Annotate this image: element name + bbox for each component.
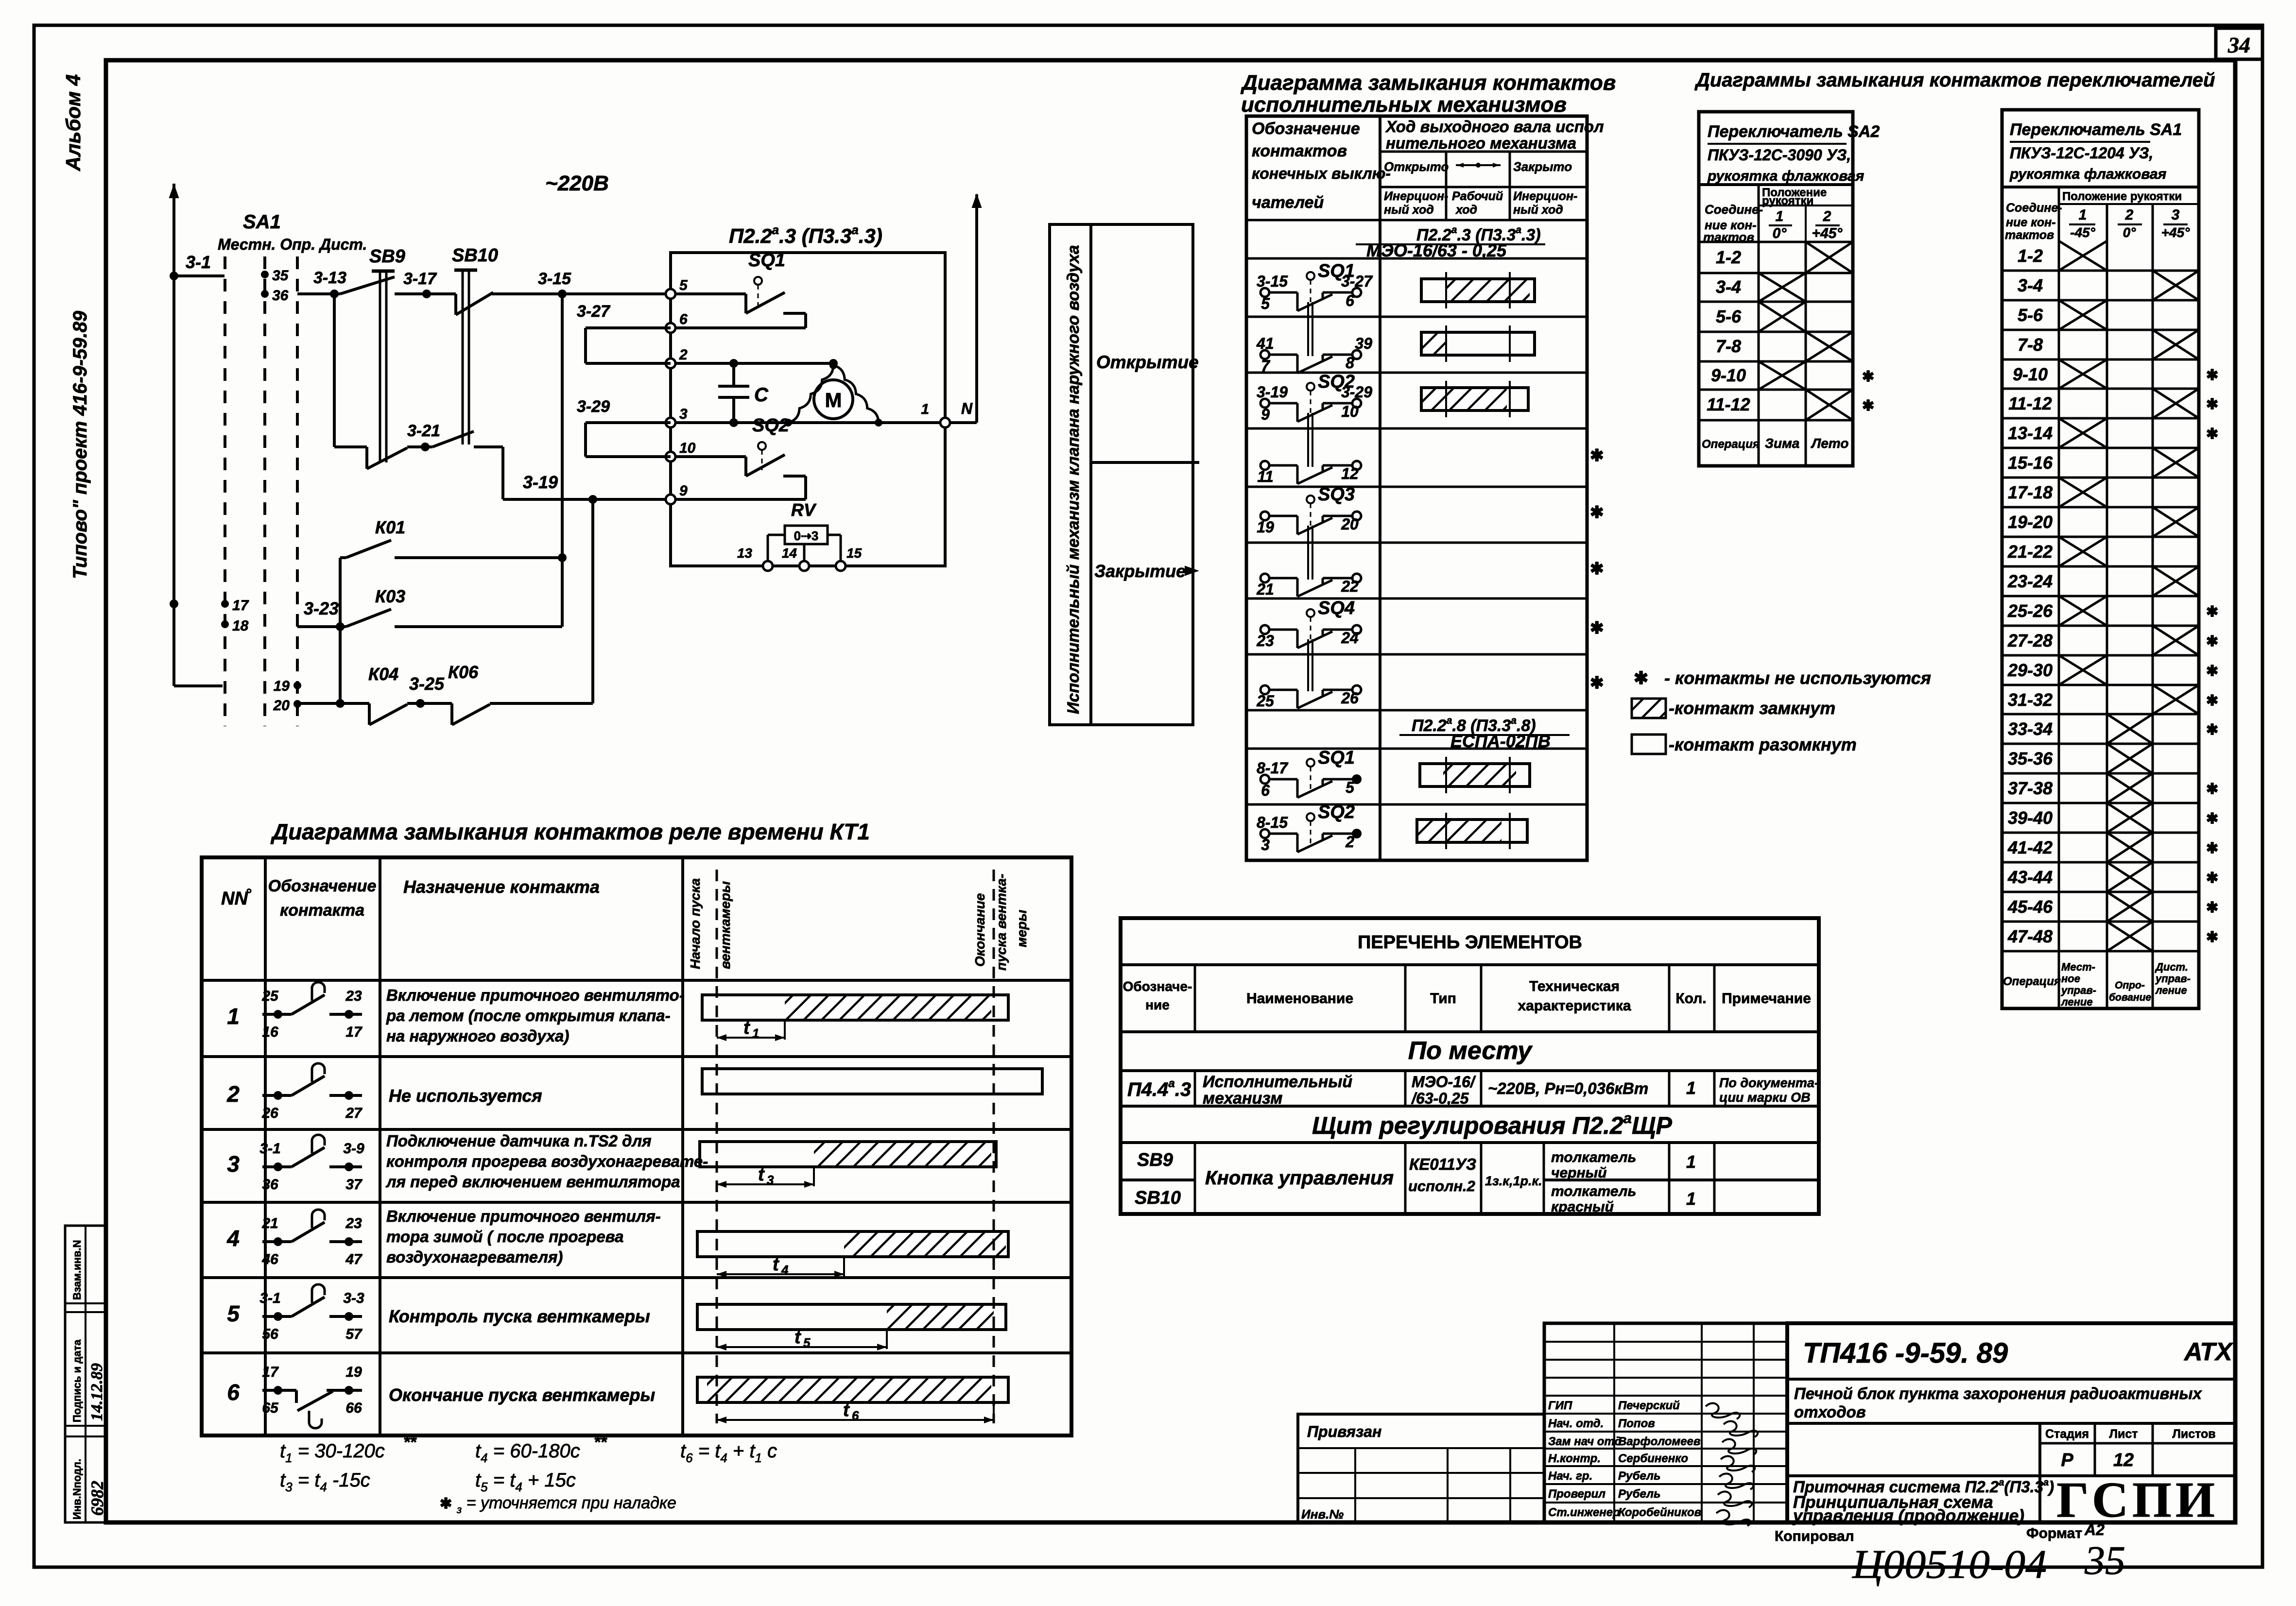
svg-text:Включение приточного вентиля: Включение приточного вентилято-	[386, 986, 685, 1004]
svg-text:SB10: SB10	[452, 245, 498, 266]
svg-text:Н.контр.: Н.контр.	[1548, 1452, 1601, 1465]
svg-text:3-19: 3-19	[1257, 383, 1288, 401]
svg-text:А2: А2	[2084, 1521, 2105, 1538]
svg-text:1: 1	[227, 1004, 240, 1029]
svg-text:Операция: Операция	[1702, 438, 1760, 451]
svg-text:35: 35	[2084, 1538, 2125, 1583]
svg-text:Открыто: Открыто	[1384, 159, 1449, 174]
svg-text:Ст.инженер: Ст.инженер	[1548, 1506, 1620, 1519]
svg-text:Обозначение: Обозначение	[268, 877, 377, 895]
svg-text:66: 66	[345, 1400, 362, 1416]
svg-text:SB9: SB9	[1137, 1150, 1173, 1170]
svg-text:Техническая: Техническая	[1529, 978, 1620, 994]
svg-text:управ-: управ-	[2155, 973, 2191, 985]
svg-text:Зима: Зима	[1765, 436, 1799, 451]
svg-text:Нач. отд.: Нач. отд.	[1548, 1417, 1604, 1430]
svg-text:11-12: 11-12	[1707, 394, 1750, 414]
svg-text:Включение приточного вентиля: Включение приточного вентиля-	[386, 1207, 661, 1225]
svg-text:отходов: отходов	[1794, 1403, 1866, 1421]
svg-text:✱: ✱	[1590, 674, 1604, 692]
svg-text:нительного механизма: нительного механизма	[1386, 134, 1576, 152]
svg-text:ное: ное	[2061, 973, 2080, 985]
svg-text:13: 13	[737, 546, 753, 561]
svg-text:✱: ✱	[2206, 367, 2218, 383]
svg-text:П4.4а​.3: П4.4а​.3	[1127, 1077, 1191, 1100]
svg-text:По месту: По месту	[1408, 1037, 1533, 1065]
svg-text:6: 6	[227, 1380, 240, 1405]
svg-text:Инерцион-: Инерцион-	[1384, 189, 1448, 203]
svg-text:рукоятка флажковая: рукоятка флажковая	[1707, 168, 1864, 184]
svg-text:17: 17	[232, 598, 249, 614]
svg-text:ра летом (после открытия клап: ра летом (после открытия клапа-	[386, 1007, 671, 1025]
svg-text:RV: RV	[791, 500, 817, 520]
svg-text:5-6: 5-6	[1716, 307, 1742, 326]
svg-text:7: 7	[1261, 357, 1271, 375]
svg-text:1-2: 1-2	[2018, 246, 2043, 266]
svg-text:5: 5	[227, 1301, 240, 1326]
svg-text:37: 37	[345, 1177, 363, 1193]
svg-text:19: 19	[345, 1364, 362, 1380]
svg-text:Опро-: Опро-	[2115, 980, 2145, 991]
svg-text:управления (продолжение): управления (продолжение)	[1792, 1506, 2024, 1525]
svg-text:10: 10	[1341, 403, 1359, 420]
svg-text:SQ1: SQ1	[748, 250, 785, 271]
svg-text:11-12: 11-12	[2008, 393, 2052, 413]
svg-text:Диаграмма замыкания контактов: Диаграмма замыкания контактов	[1240, 71, 1616, 95]
svg-text:черный: черный	[1551, 1165, 1607, 1181]
svg-text:ход: ход	[1455, 203, 1477, 217]
svg-text:24: 24	[1341, 629, 1359, 647]
svg-text:МЭО-16/63 - 0,25: МЭО-16/63 - 0,25	[1366, 240, 1507, 260]
svg-text:меры: меры	[1014, 910, 1029, 947]
svg-text:47: 47	[345, 1251, 363, 1267]
svg-text:SQ3: SQ3	[1318, 484, 1355, 505]
svg-text:Варфоломеев: Варфоломеев	[1618, 1435, 1700, 1448]
svg-text:SQ1: SQ1	[1318, 261, 1355, 281]
svg-text:17-18: 17-18	[2008, 482, 2053, 502]
svg-text:Лист: Лист	[2109, 1427, 2138, 1441]
svg-text:Операция: Операция	[2003, 975, 2061, 988]
svg-text:Инв.№: Инв.№	[1301, 1507, 1344, 1521]
svg-text:31-32: 31-32	[2008, 690, 2053, 710]
svg-text:9-10: 9-10	[1711, 365, 1746, 385]
svg-text:23: 23	[345, 988, 362, 1004]
svg-text:Подпись и дата: Подпись и дата	[71, 1339, 83, 1422]
svg-text:25-26: 25-26	[2007, 601, 2053, 621]
svg-text:✱: ✱	[2206, 604, 2218, 620]
svg-text:SQ1: SQ1	[1318, 748, 1355, 768]
svg-text:Положение рукоятки: Положение рукоятки	[2062, 190, 2182, 203]
svg-text:✱: ✱	[1590, 619, 1604, 637]
svg-text:t: t	[743, 1018, 750, 1038]
svg-text:5: 5	[1346, 779, 1355, 796]
svg-text:М: М	[825, 389, 842, 411]
svg-text:12: 12	[1341, 465, 1359, 482]
svg-text:23: 23	[1256, 632, 1274, 649]
svg-text:тактов: тактов	[2005, 228, 2054, 242]
svg-text:Печной блок пункта захороне: Печной блок пункта захоронения радиоакти…	[1794, 1384, 2203, 1402]
svg-text:контроля прогрева воздухонаг: контроля прогрева воздухонагревате-	[386, 1152, 708, 1170]
svg-text:контактов: контактов	[1252, 142, 1347, 160]
svg-text:27: 27	[345, 1105, 363, 1121]
svg-text:3-19: 3-19	[523, 472, 558, 492]
svg-text:t5 = t4 + 15с: t5 = t4 + 15с	[475, 1469, 576, 1494]
svg-text:3-15: 3-15	[1257, 273, 1288, 290]
svg-text:Диаграммы замыкания контактов: Диаграммы замыкания контактов переключат…	[1694, 69, 2215, 91]
svg-text:ление: ление	[2061, 996, 2093, 1008]
svg-text:Кнопка управления: Кнопка управления	[1205, 1167, 1394, 1189]
svg-text:✱: ✱	[2206, 870, 2218, 886]
svg-text:По документа-: По документа-	[1719, 1076, 1819, 1090]
svg-text:13-14: 13-14	[2008, 423, 2053, 443]
svg-text:39: 39	[1355, 335, 1372, 352]
svg-text:3-17: 3-17	[403, 270, 437, 288]
svg-text:ля перед включением вентилят: ля перед включением вентилятора	[385, 1173, 680, 1191]
svg-text:венткамеры: венткамеры	[718, 881, 733, 969]
svg-text:11: 11	[1257, 468, 1273, 485]
svg-text:20: 20	[1341, 515, 1359, 533]
svg-text:21: 21	[1256, 581, 1274, 598]
svg-text:**: **	[403, 1433, 417, 1452]
svg-text:25: 25	[261, 988, 279, 1004]
svg-text:3: 3	[227, 1151, 240, 1177]
svg-text:2: 2	[1345, 833, 1354, 851]
svg-text:5: 5	[1261, 295, 1270, 312]
svg-text:9: 9	[679, 483, 688, 499]
svg-text:✱: ✱	[2206, 663, 2218, 679]
svg-text:✱: ✱	[2206, 929, 2218, 945]
svg-text:ление: ление	[2155, 984, 2187, 996]
svg-text:Нач. гр.: Нач. гр.	[1548, 1469, 1592, 1483]
svg-text:+45°: +45°	[2161, 225, 2190, 240]
svg-text:22: 22	[1341, 578, 1359, 595]
svg-text:-45°: -45°	[2070, 225, 2095, 240]
svg-text:тора зимой ( после прогрева: тора зимой ( после прогрева	[386, 1228, 624, 1246]
svg-text:Диаграмма замыкания контакто: Диаграмма замыкания контактов реле време…	[270, 819, 870, 844]
svg-text:Печерский: Печерский	[1618, 1399, 1680, 1412]
svg-text:33-34: 33-34	[2008, 719, 2053, 739]
svg-text:Местн. Опр. Дист.: Местн. Опр. Дист.	[218, 236, 367, 253]
svg-text:пуска вентка-: пуска вентка-	[994, 874, 1009, 971]
svg-text:3-15: 3-15	[538, 270, 571, 288]
svg-text:SQ2: SQ2	[1318, 802, 1355, 822]
svg-text:18: 18	[232, 618, 249, 634]
svg-text:56: 56	[262, 1326, 278, 1342]
svg-text:Сербиненко: Сербиненко	[1618, 1452, 1688, 1465]
svg-text:Копировал: Копировал	[1775, 1528, 1854, 1544]
svg-text:N: N	[961, 400, 973, 417]
svg-text:Формат: Формат	[2026, 1525, 2082, 1541]
svg-text:3: 3	[767, 1173, 774, 1187]
svg-text:1: 1	[1686, 1152, 1696, 1172]
svg-text:/63-0,25: /63-0,25	[1411, 1090, 1469, 1107]
svg-text:t: t	[758, 1164, 765, 1185]
svg-text:17: 17	[345, 1024, 363, 1040]
svg-text:15: 15	[846, 546, 862, 561]
svg-text:SB9: SB9	[369, 246, 405, 267]
svg-text:9: 9	[1261, 406, 1270, 423]
svg-text:Мест-: Мест-	[2061, 961, 2095, 973]
svg-text:механизм: механизм	[1203, 1089, 1282, 1108]
svg-text:47-48: 47-48	[2007, 926, 2053, 946]
svg-text:1-2: 1-2	[1716, 247, 1741, 267]
svg-text:26: 26	[261, 1105, 278, 1121]
svg-text:+45°: +45°	[1812, 225, 1843, 241]
svg-text:✱: ✱	[2206, 781, 2218, 797]
svg-text:15-16: 15-16	[2008, 453, 2053, 473]
svg-text:5: 5	[679, 277, 688, 293]
svg-text:Взам.инв.N: Взам.инв.N	[71, 1240, 83, 1300]
svg-text:3-1: 3-1	[259, 1141, 280, 1157]
svg-text:К04: К04	[368, 664, 398, 684]
svg-text:3-3: 3-3	[343, 1290, 364, 1306]
svg-text:✱: ✱	[2206, 840, 2218, 856]
svg-text:Исполнительный механизм клапан: Исполнительный механизм клапана наружног…	[1064, 245, 1083, 714]
svg-text:6: 6	[852, 1408, 859, 1423]
svg-text:-контакт замкнут: -контакт замкнут	[1669, 698, 1835, 718]
svg-text:57: 57	[345, 1326, 363, 1342]
svg-text:Стадия: Стадия	[2045, 1427, 2089, 1441]
svg-text:на наружного воздуха): на наружного воздуха)	[386, 1027, 569, 1045]
svg-text:✱: ✱	[1590, 560, 1604, 578]
svg-text:3: 3	[1261, 836, 1270, 854]
svg-text:✱: ✱	[2206, 633, 2218, 649]
svg-text:37-38: 37-38	[2008, 778, 2053, 798]
svg-text:Назначение контакта: Назначение контакта	[403, 877, 600, 897]
svg-text:3-27: 3-27	[577, 302, 611, 321]
svg-text:36: 36	[262, 1177, 278, 1193]
svg-text:8-15: 8-15	[1257, 814, 1288, 831]
svg-text:3-9: 3-9	[343, 1141, 364, 1157]
svg-text:16: 16	[262, 1024, 278, 1040]
svg-text:4: 4	[781, 1263, 789, 1277]
svg-text:Кол.: Кол.	[1675, 991, 1706, 1007]
svg-text:34: 34	[2227, 33, 2250, 57]
svg-text:Дист.: Дист.	[2155, 961, 2188, 973]
svg-text:SQ4: SQ4	[1318, 598, 1355, 618]
svg-text:SQ2: SQ2	[752, 415, 789, 436]
svg-text:Подключение датчика n.TS2 дл: Подключение датчика n.TS2 для	[386, 1132, 652, 1150]
svg-text:Примечание: Примечание	[1722, 991, 1811, 1007]
svg-text:ный ход: ный ход	[1513, 203, 1563, 217]
svg-text:К03: К03	[375, 586, 405, 606]
svg-text:Инв.Nподл.: Инв.Nподл.	[71, 1459, 83, 1520]
svg-text:9-10: 9-10	[2013, 364, 2048, 384]
svg-text:С: С	[754, 384, 769, 406]
svg-text:2: 2	[226, 1081, 240, 1107]
svg-text:39-40: 39-40	[2008, 808, 2053, 828]
svg-text:3-13: 3-13	[313, 269, 346, 287]
svg-text:ПКУЗ-12С-1204 УЗ,: ПКУЗ-12С-1204 УЗ,	[2010, 144, 2153, 162]
svg-text:19: 19	[274, 678, 290, 694]
svg-text:Проверил: Проверил	[1548, 1487, 1605, 1501]
svg-text:чателей: чателей	[1252, 193, 1324, 212]
svg-text:3: 3	[2172, 207, 2180, 223]
svg-text:3-1: 3-1	[186, 252, 211, 272]
svg-text:23-24: 23-24	[2007, 571, 2053, 591]
svg-text:8: 8	[1346, 354, 1354, 372]
svg-text:ПЕРЕЧЕНЬ ЭЛЕМЕНТОВ: ПЕРЕЧЕНЬ ЭЛЕМЕНТОВ	[1358, 932, 1582, 953]
svg-text:АТХ: АТХ	[2183, 1338, 2234, 1366]
svg-text:SB10: SB10	[1135, 1188, 1181, 1208]
svg-text:толкатель: толкатель	[1551, 1149, 1636, 1165]
svg-text:П2.2а​.3 (П3.3а​.3): П2.2а​.3 (П3.3а​.3)	[729, 222, 882, 247]
svg-text:4: 4	[226, 1226, 240, 1251]
svg-text:Инерцион-: Инерцион-	[1513, 189, 1577, 203]
svg-text:27-28: 27-28	[2007, 631, 2053, 650]
svg-text:12: 12	[2113, 1450, 2134, 1470]
svg-text:рукоятки: рукоятки	[1762, 194, 1813, 207]
svg-text:воздухонагревателя): воздухонагревателя)	[386, 1248, 563, 1266]
svg-text:35: 35	[272, 268, 289, 284]
svg-text:t4 = 60-180с: t4 = 60-180с	[475, 1440, 580, 1465]
svg-text:✱: ✱	[1862, 369, 1874, 385]
svg-text:МЭО-16/: МЭО-16/	[1412, 1073, 1476, 1091]
svg-text:красный: красный	[1551, 1199, 1614, 1215]
svg-text:1з.к,1р.к.: 1з.к,1р.к.	[1485, 1174, 1542, 1188]
svg-text:Листов: Листов	[2172, 1427, 2215, 1441]
svg-text:1: 1	[1686, 1189, 1696, 1209]
svg-text:✱: ✱	[1634, 668, 1648, 688]
svg-text:Щит регулирования П2.2а​ЩР: Щит регулирования П2.2а​ЩР	[1312, 1110, 1672, 1139]
svg-text:Переключатель SA1: Переключатель SA1	[2010, 120, 2182, 139]
svg-text:14: 14	[782, 546, 797, 561]
svg-text:Ц00510-04: Ц00510-04	[1852, 1542, 2047, 1587]
svg-text:~220В: ~220В	[545, 171, 609, 195]
svg-text:6: 6	[1346, 292, 1354, 309]
svg-text:Соедине-: Соедине-	[2006, 201, 2062, 215]
svg-text:6: 6	[679, 311, 688, 327]
svg-text:Альбом 4: Альбом 4	[62, 74, 85, 171]
svg-text:✱: ✱	[2206, 722, 2218, 738]
svg-text:Р: Р	[2061, 1450, 2073, 1470]
svg-text:-контакт разомкнут: -контакт разомкнут	[1669, 735, 1857, 754]
svg-text:✱: ✱	[1590, 503, 1604, 522]
svg-text:t1 = 30-120с: t1 = 30-120с	[280, 1440, 385, 1465]
svg-text:6982: 6982	[87, 1481, 107, 1516]
svg-text:21: 21	[261, 1215, 278, 1231]
svg-text:✱: ✱	[1590, 446, 1604, 465]
svg-text:7-8: 7-8	[1716, 336, 1741, 356]
svg-text:t: t	[794, 1327, 801, 1348]
svg-text:Типово" проект 416-9-59.89: Типово" проект 416-9-59.89	[69, 310, 91, 579]
svg-text:✱: ✱	[2206, 426, 2218, 442]
svg-text:контакта: контакта	[280, 901, 364, 920]
svg-text:0°: 0°	[2123, 225, 2137, 240]
svg-text:20: 20	[273, 698, 290, 714]
svg-text:t: t	[843, 1400, 850, 1420]
svg-text:✱: ✱	[2206, 811, 2218, 827]
svg-text:Закрытие: Закрытие	[1094, 561, 1186, 581]
svg-text:~220В, Рн=0,036кВт: ~220В, Рн=0,036кВт	[1488, 1079, 1648, 1097]
svg-text:3-23: 3-23	[304, 598, 339, 618]
svg-text:К01: К01	[375, 517, 405, 537]
svg-text:17: 17	[262, 1364, 279, 1380]
svg-text:Окончание пуска венткамеры: Окончание пуска венткамеры	[389, 1385, 655, 1405]
svg-text:3-1: 3-1	[259, 1290, 280, 1306]
svg-text:ГИП: ГИП	[1548, 1399, 1572, 1412]
svg-text:1: 1	[2079, 207, 2087, 223]
svg-text:✱: ✱	[2206, 900, 2218, 916]
svg-text:7-8: 7-8	[2018, 335, 2043, 355]
svg-text:ние кон-: ние кон-	[2006, 216, 2056, 229]
svg-text:ТП416 -9-59. 89: ТП416 -9-59. 89	[1803, 1337, 2008, 1369]
svg-text:1: 1	[1776, 208, 1784, 224]
svg-text:ный ход: ный ход	[1384, 203, 1434, 217]
svg-text:36: 36	[272, 288, 289, 304]
svg-text:- контакты не используются: - контакты не используются	[1664, 668, 1931, 688]
svg-text:5: 5	[803, 1335, 811, 1350]
svg-text:t6 = t4 + t1 с: t6 = t4 + t1 с	[680, 1440, 777, 1465]
svg-text:14.12.89: 14.12.89	[88, 1363, 106, 1421]
svg-text:1: 1	[752, 1026, 759, 1041]
svg-text:✱: ✱	[2206, 396, 2218, 412]
svg-text:Наименование: Наименование	[1246, 991, 1353, 1007]
svg-text:2: 2	[1823, 208, 1831, 224]
svg-text:Не используется: Не используется	[389, 1086, 542, 1106]
svg-text:19-20: 19-20	[2008, 512, 2053, 532]
svg-text:10: 10	[679, 440, 696, 456]
svg-text:1: 1	[1686, 1078, 1696, 1098]
svg-text:29-30: 29-30	[2007, 660, 2053, 680]
svg-text:0°: 0°	[1773, 225, 1787, 241]
svg-text:2: 2	[679, 347, 688, 363]
svg-text:Исполнительный: Исполнительный	[1203, 1073, 1352, 1091]
svg-text:8-17: 8-17	[1257, 759, 1289, 777]
svg-text:41: 41	[1256, 335, 1274, 352]
svg-text:3: 3	[679, 406, 688, 422]
svg-text:Переключатель SA2: Переключатель SA2	[1708, 122, 1880, 141]
svg-text:43-44: 43-44	[2007, 867, 2053, 887]
svg-text:65: 65	[262, 1400, 279, 1416]
svg-text:Открытие: Открытие	[1096, 352, 1199, 372]
svg-text:23: 23	[345, 1215, 362, 1231]
svg-text:46: 46	[261, 1251, 278, 1267]
svg-text:35-36: 35-36	[2008, 749, 2053, 769]
svg-text:1: 1	[921, 401, 929, 417]
svg-text:2: 2	[2125, 207, 2134, 223]
svg-text:характеристика: характеристика	[1518, 998, 1631, 1014]
svg-text:✱: ✱	[1862, 398, 1874, 414]
svg-text:управ-: управ-	[2061, 984, 2096, 996]
svg-text:конечных выклю-: конечных выклю-	[1252, 165, 1391, 182]
svg-text:исполнительных механизмов: исполнительных механизмов	[1241, 93, 1567, 117]
svg-text:Контроль пуска венткамеры: Контроль пуска венткамеры	[389, 1306, 650, 1326]
svg-text:26: 26	[1341, 689, 1359, 707]
svg-text:t: t	[773, 1254, 779, 1275]
svg-text:ние: ние	[1145, 997, 1170, 1012]
svg-text:3-4: 3-4	[2018, 275, 2043, 295]
svg-text:толкатель: толкатель	[1551, 1183, 1636, 1199]
svg-text:Обозначение: Обозначение	[1252, 120, 1360, 138]
svg-text:SQ2: SQ2	[1318, 372, 1355, 392]
svg-text:Соедине-: Соедине-	[1705, 202, 1763, 217]
svg-text:рукоятка флажковая: рукоятка флажковая	[2009, 166, 2167, 182]
svg-text:Зам нач отд: Зам нач отд	[1548, 1435, 1622, 1448]
svg-text:ГСПИ: ГСПИ	[2056, 1472, 2219, 1528]
svg-text:5-6: 5-6	[2018, 305, 2043, 325]
svg-text:Попов: Попов	[1618, 1417, 1655, 1430]
svg-text:6: 6	[1261, 782, 1270, 799]
svg-text:✱: ✱	[440, 1496, 452, 1512]
svg-text:25: 25	[1256, 692, 1275, 710]
svg-text:3-29: 3-29	[577, 397, 610, 416]
svg-text:К06: К06	[448, 662, 479, 682]
svg-text:NN: NN	[221, 888, 248, 909]
svg-text:Привязан: Привязан	[1307, 1423, 1381, 1440]
svg-text:Закрыто: Закрыто	[1513, 159, 1572, 174]
svg-text:Окончание: Окончание	[972, 893, 987, 967]
